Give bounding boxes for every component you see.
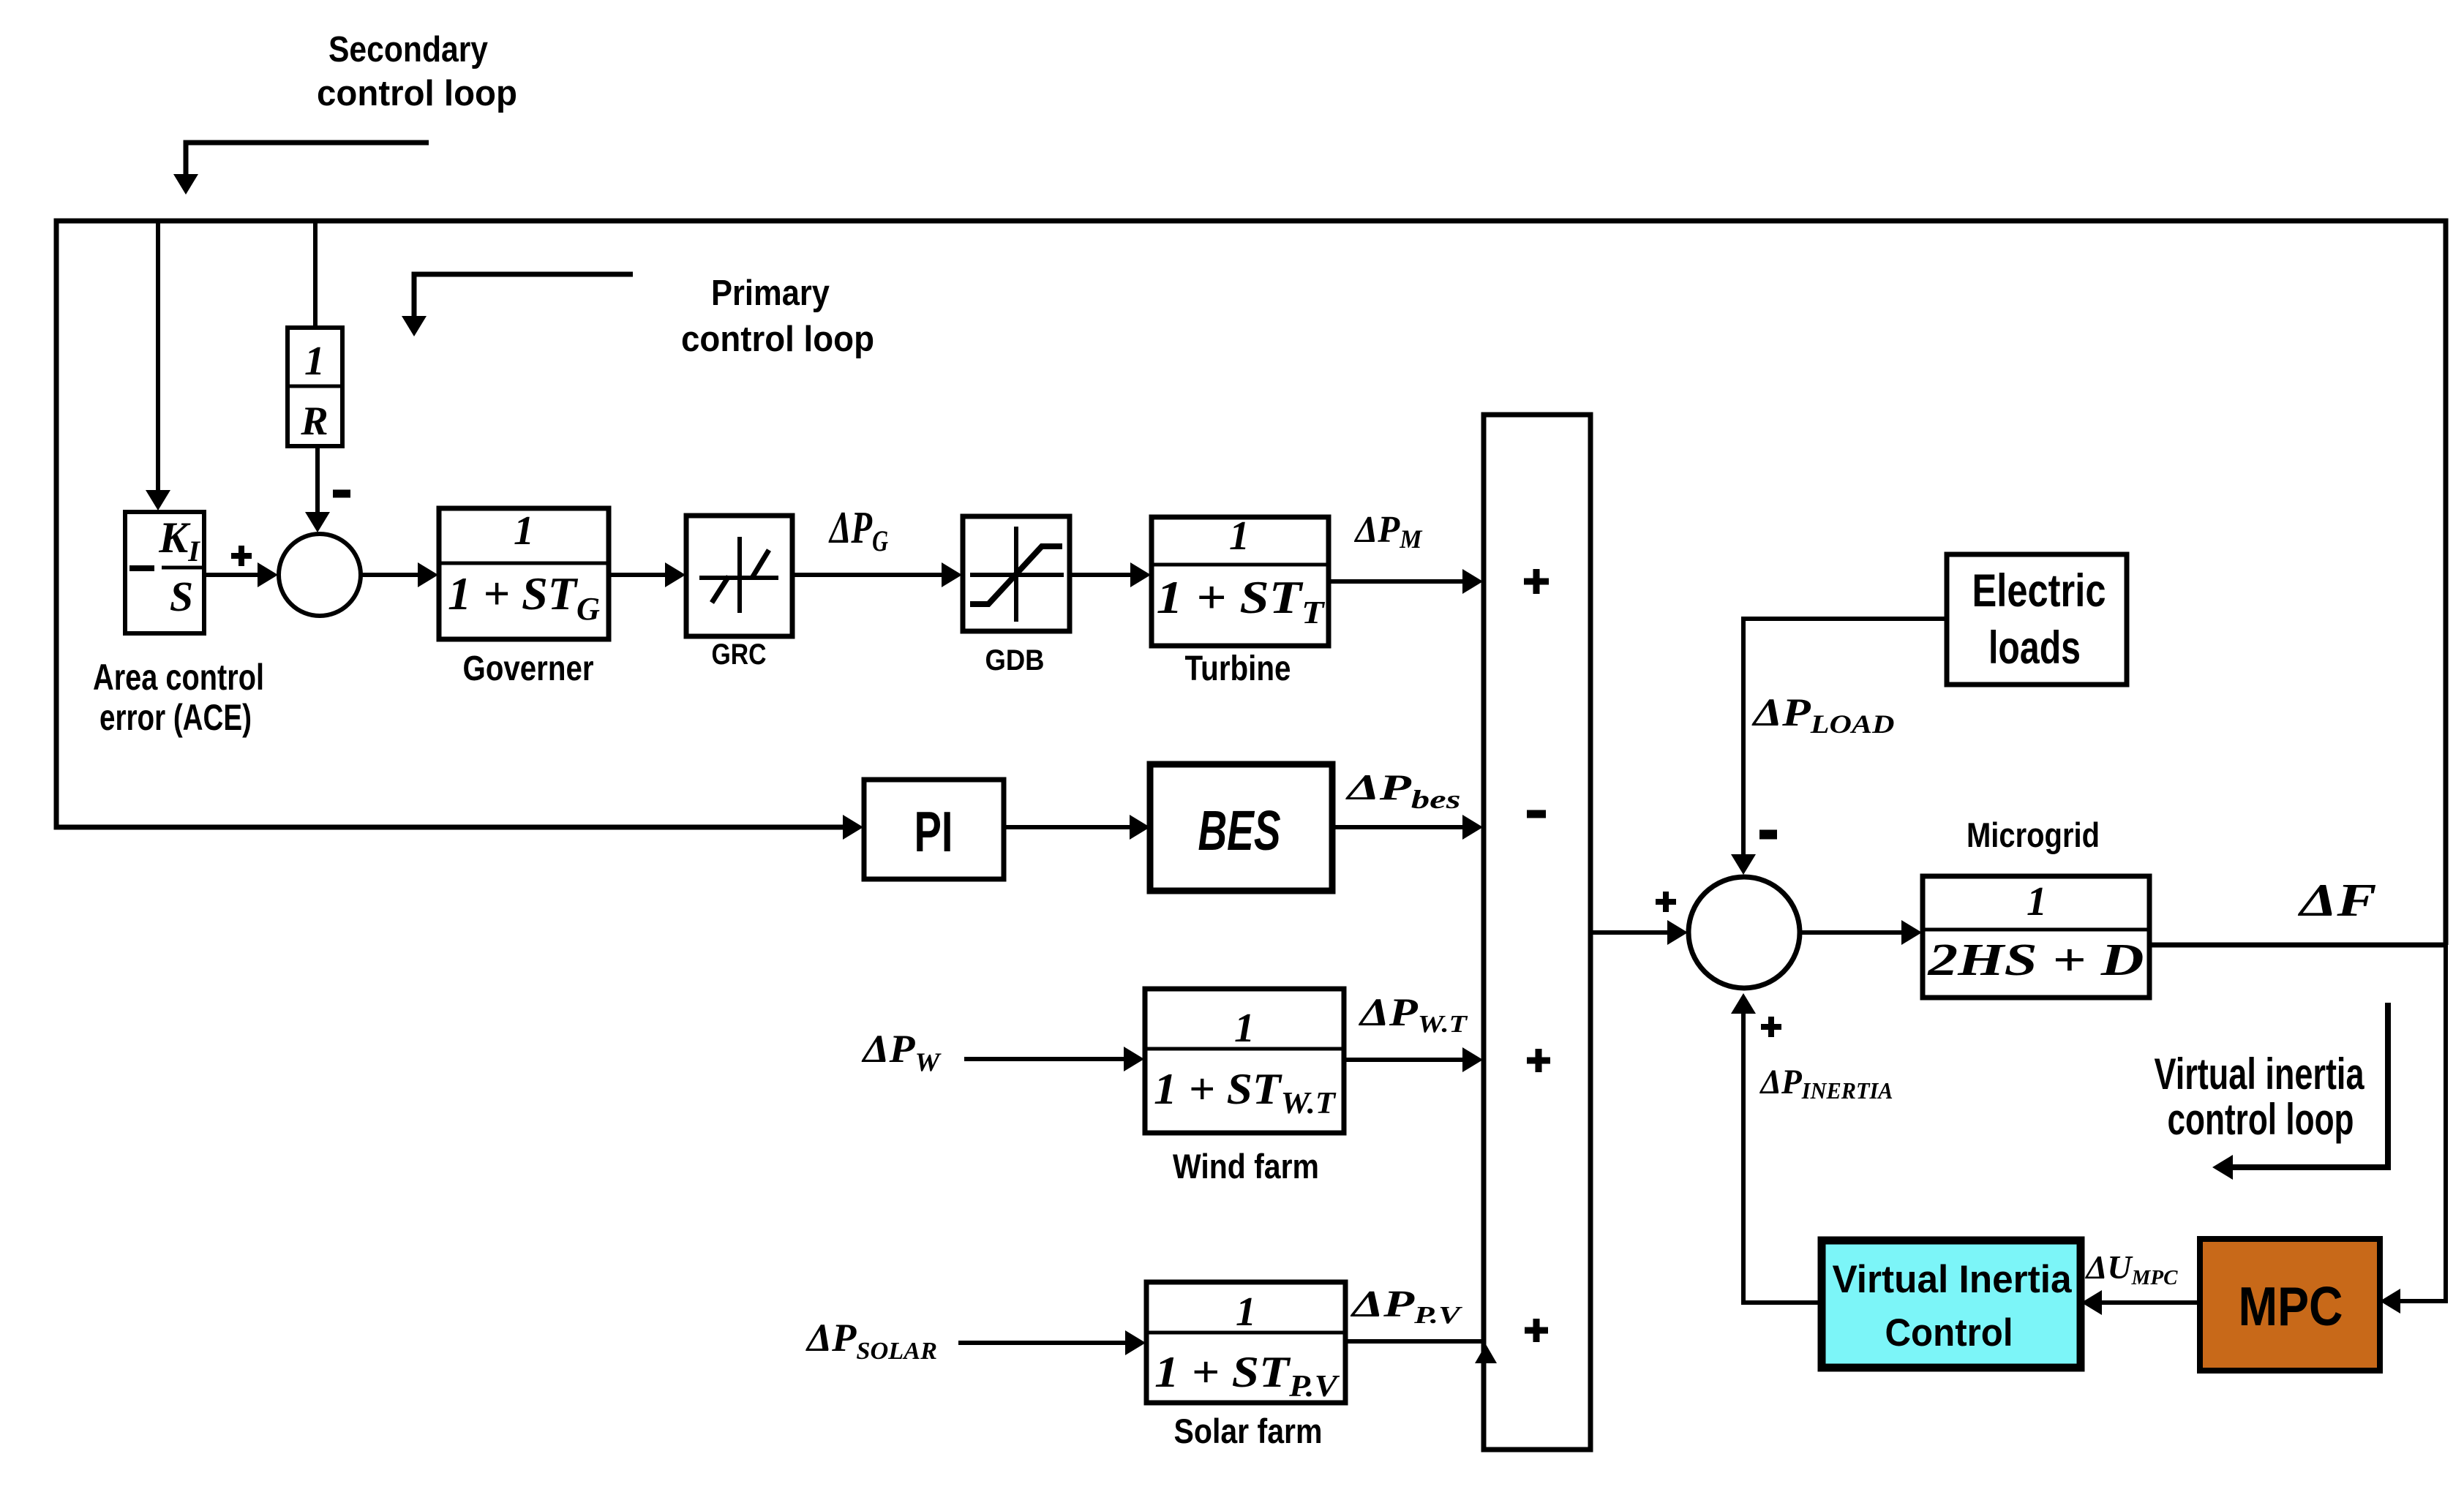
minus sign at summing junction 1 (droop input) <box>333 490 350 498</box>
svg-text:1: 1 <box>304 339 325 384</box>
svg-text:ΔF: ΔF <box>2297 874 2377 926</box>
wire: ACE block to summing junction 1 <box>204 573 269 577</box>
svg-text:1: 1 <box>1234 1006 1255 1051</box>
minus sign in summation rectangle (DeltaP_bes input) <box>1527 810 1546 818</box>
svg-text:control loop: control loop <box>317 74 517 113</box>
block: area control error -KI/S <box>125 512 204 633</box>
GDB dead-band icon <box>1014 527 1018 622</box>
wire: Solar farm to summation rectangle <box>1345 1339 1486 1344</box>
wire: summing junction 2 to Microgrid <box>1800 930 1912 935</box>
wire: PI to BES <box>1004 825 1141 829</box>
svg-text:control loop: control loop <box>681 320 874 359</box>
svg-text:BES: BES <box>1198 799 1281 862</box>
block: PI controller <box>864 780 1004 879</box>
svg-text:control loop: control loop <box>2168 1095 2354 1144</box>
fraction line of Solar farm block <box>1146 1331 1345 1335</box>
block: Microgrid 1/(2HS+D) <box>1923 876 2149 998</box>
block: Virtual Inertia Control <box>1822 1240 2081 1368</box>
plus sign at summing junction 2 (inertia input) <box>1761 1017 1781 1037</box>
plus sign in summation rectangle (DeltaP_W.T input) <box>1527 1049 1550 1072</box>
svg-text:Control: Control <box>1885 1311 2013 1355</box>
wire: Wind farm to summation rectangle <box>1344 1058 1473 1062</box>
svg-text:1: 1 <box>2027 879 2047 924</box>
block: GDB dead-band <box>963 516 1070 631</box>
fraction line of Microgrid block <box>1923 928 2149 932</box>
svg-text:Area control: Area control <box>93 657 264 698</box>
block: MPC model predictive controller <box>2200 1239 2380 1371</box>
block: BES battery energy storage <box>1150 764 1332 891</box>
svg-text:1: 1 <box>1229 513 1250 559</box>
wire: top line down into 1/R block <box>313 221 318 328</box>
wire: summing junction 1 to Governor <box>361 573 429 577</box>
block: Solar farm 1/(1+STP.V) <box>1146 1282 1345 1403</box>
svg-text:2HS + D: 2HS + D <box>1927 935 2144 985</box>
fraction line of Wind farm block <box>1145 1047 1344 1051</box>
svg-text:Governer: Governer <box>463 649 594 688</box>
fraction line of Governor block <box>439 562 609 565</box>
svg-text:loads: loads <box>1988 622 2081 674</box>
wire: GDB to Turbine <box>1070 573 1141 577</box>
wire: GRC to GDB <box>792 573 953 577</box>
svg-text:Primary: Primary <box>711 274 830 313</box>
wire: DeltaP_W into Wind farm block <box>964 1057 1135 1061</box>
wire: Microgrid DeltaF output to right feedback line <box>2149 943 2444 948</box>
svg-text:GRC: GRC <box>712 638 767 671</box>
wire: DeltaP_SOLAR into Solar farm block <box>958 1341 1136 1345</box>
block: Electric loads <box>1947 554 2127 685</box>
svg-text:Microgrid: Microgrid <box>1967 815 2100 854</box>
svg-text:MPC: MPC <box>2239 1276 2343 1337</box>
wire: BES to summation rectangle <box>1332 825 1473 829</box>
fraction line of Turbine block <box>1152 563 1329 567</box>
summation rectangle (power balance) <box>1484 415 1590 1450</box>
wire: virtual-inertia-loop annotation arrow <box>2233 1003 2388 1167</box>
summing junction 1 (ACE + droop) <box>279 534 361 616</box>
svg-text:Wind farm: Wind farm <box>1173 1147 1319 1186</box>
svg-text:error (ACE): error (ACE) <box>99 697 252 738</box>
wire: Governor to GRC <box>609 573 676 577</box>
minus sign at summing junction 2 (load input) <box>1759 830 1777 840</box>
fraction line of 1/R block <box>288 385 342 388</box>
svg-text:Secondary: Secondary <box>328 30 488 69</box>
svg-text:GDB: GDB <box>985 644 1045 677</box>
block: Wind farm 1/(1+STW.T) <box>1145 989 1344 1133</box>
svg-text:PI: PI <box>914 799 953 864</box>
fraction bar of KI/S <box>162 566 202 570</box>
svg-text:Virtual inertia: Virtual inertia <box>2155 1050 2365 1099</box>
plus sign at summing junction 2 (left input) <box>1656 892 1676 912</box>
svg-text:R: R <box>300 399 328 444</box>
svg-text:1: 1 <box>1236 1289 1256 1335</box>
block: Governor 1/(1+STG) <box>439 508 609 639</box>
svg-text:Electric: Electric <box>1972 565 2106 617</box>
wire: primary-loop annotation arrow (horizontal + drop) <box>414 274 633 316</box>
wire: Virtual Inertia Control up to summing junction 2 <box>1743 1013 1822 1303</box>
block: GRC rate limiter <box>686 516 792 636</box>
wire: Electric loads to summing junction 2 <box>1743 619 1947 854</box>
wire: 1/R down to summing junction 1 <box>315 446 320 512</box>
wire: top line down to ACE block <box>156 221 160 506</box>
plus sign at summing junction 1 (ACE input) <box>231 546 252 566</box>
svg-text:1 + STT: 1 + STT <box>1157 571 1326 630</box>
svg-text:Virtual Inertia: Virtual Inertia <box>1833 1258 2073 1301</box>
wire: secondary feedback loop (DeltaF up, across top, down left side, to PI) <box>56 221 2446 945</box>
wire: MPC to Virtual Inertia Control <box>2091 1300 2200 1305</box>
wire: Turbine to summation rectangle <box>1329 579 1473 584</box>
svg-text:Solar farm: Solar farm <box>1174 1412 1323 1450</box>
svg-text:S: S <box>170 573 193 620</box>
wire: summation rectangle to summing junction 2 <box>1590 930 1678 935</box>
minus sign inside ACE block <box>129 565 154 571</box>
wire: DeltaF feedback down right side into MPC <box>2389 945 2446 1301</box>
wire: secondary-loop annotation arrow (horizontal + drop) <box>186 143 429 174</box>
plus sign in summation rectangle (DeltaP_P.V input) <box>1525 1319 1548 1342</box>
GRC rate-limiter icon <box>737 537 742 613</box>
block: droop 1/R <box>288 328 342 446</box>
svg-text:Turbine: Turbine <box>1185 649 1291 688</box>
block: Turbine 1/(1+STT) <box>1152 517 1329 646</box>
summing junction 2 (system power balance) <box>1689 877 1800 988</box>
plus sign in summation rectangle (DeltaP_M input) <box>1524 569 1549 594</box>
svg-text:1: 1 <box>514 508 534 554</box>
